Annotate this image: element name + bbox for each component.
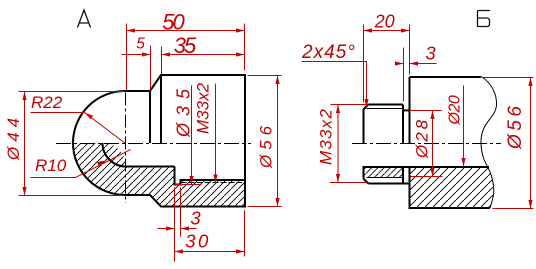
dia20 label line <box>463 86 465 167</box>
R10 arrowhead <box>97 161 106 166</box>
dim 20 line <box>364 30 410 32</box>
dia44 dim line <box>24 92 26 196</box>
5 arrow <box>142 52 151 56</box>
horizontal centerline (view A axis) <box>56 143 251 145</box>
svg-text:Ø56: Ø56 <box>505 103 526 150</box>
svg-text:R22: R22 <box>31 93 63 112</box>
30 arrows <box>175 249 184 253</box>
dia44 ext top <box>19 91 125 93</box>
dim 50/35 ext line right <box>244 24 246 71</box>
thread groove walls <box>175 167 181 185</box>
R22 shelf and leader <box>31 113 126 144</box>
dim 3A tail left <box>158 228 175 230</box>
M33x2 arrow <box>213 175 217 184</box>
svg-text:M33x2: M33x2 <box>194 82 213 134</box>
vertical centerline (sphere axis) <box>125 93 127 204</box>
dim 3B tail left <box>396 63 404 65</box>
thread end line (interrupted by bore) <box>402 105 404 184</box>
R10 shelf and leader <box>31 150 131 178</box>
svg-text:Ø56: Ø56 <box>257 121 276 169</box>
thread minor thin top <box>367 108 404 110</box>
svg-text:35: 35 <box>174 33 197 58</box>
dia56B dim line <box>530 78 532 209</box>
dim 3A tail right <box>181 228 197 230</box>
label Б <box>478 11 491 27</box>
svg-text:Ø20: Ø20 <box>447 95 464 125</box>
crease line cone/cyl44 joint <box>149 91 151 143</box>
dia44 arrows <box>22 92 26 101</box>
dim 50 ext line left <box>126 24 128 91</box>
dia56B ext bottom <box>493 208 534 210</box>
hatch flange section <box>410 167 494 208</box>
2x45 shelf and leader <box>302 62 367 106</box>
dia28 ext top <box>410 110 442 112</box>
arrowheads view B <box>336 28 533 208</box>
dia28 ext bottom <box>411 176 443 178</box>
50 arrows <box>127 28 136 32</box>
dim 5 ext line <box>150 46 152 90</box>
dim 3B tail right <box>410 63 437 65</box>
svg-text:Ø28: Ø28 <box>413 117 432 159</box>
dim 20 ext left <box>363 25 365 103</box>
dia35 arrow <box>189 176 193 185</box>
dim 20 / 3 ext right (flange face) <box>409 25 411 75</box>
svg-text:Ø35: Ø35 <box>174 82 194 138</box>
dia35 label line <box>191 86 193 185</box>
svg-text:R10: R10 <box>35 156 67 175</box>
dim 35 ext line left <box>161 47 163 75</box>
thread bottom edge <box>368 183 403 185</box>
dia56A ext top <box>248 75 282 77</box>
arrowheads view A <box>22 28 279 253</box>
svg-text:50: 50 <box>162 10 185 35</box>
dim 5 tail <box>122 54 151 56</box>
thread major line (thin dashed) <box>181 182 243 184</box>
wavy break line <box>481 77 497 208</box>
M33x2B ext bottom <box>330 182 368 184</box>
horizontal centerline view B <box>352 143 501 145</box>
dim 35 line <box>162 54 245 56</box>
R22 arrowhead <box>85 113 94 120</box>
cavity wall <box>126 166 175 168</box>
svg-text:Ø44: Ø44 <box>4 113 23 161</box>
3A arrows <box>166 226 175 230</box>
thread minor line (thick) <box>181 179 246 181</box>
svg-text:M33x2: M33x2 <box>317 108 336 165</box>
dia28 arrows <box>430 111 434 120</box>
chamfer top left <box>364 105 369 110</box>
internal cavity R10 arc <box>103 143 127 167</box>
chamfer bottom left <box>364 179 369 184</box>
svg-text:2x45°: 2x45° <box>301 42 356 63</box>
M33x2B ext top <box>331 104 367 106</box>
dia20 arrow <box>461 158 465 167</box>
2x45 arrow <box>364 99 368 108</box>
M33x2B arrows <box>336 105 340 114</box>
svg-text:30: 30 <box>185 231 211 252</box>
bore dia20 line <box>364 166 490 168</box>
outer profile view A: sphere R22 <box>73 91 125 195</box>
dia56B ext top <box>484 77 534 79</box>
neck bottom line <box>403 183 410 185</box>
dim 3A ext line right <box>180 188 182 237</box>
svg-text:20: 20 <box>374 12 395 32</box>
M33x2B dim line <box>337 105 339 183</box>
dia56B arrows <box>528 78 532 87</box>
35 arrows <box>162 52 171 56</box>
dim 30 line <box>175 251 245 253</box>
dim 3A ext line left <box>174 188 176 262</box>
crease line cone/cyl56 joint <box>160 75 162 143</box>
3B arrows <box>395 61 404 65</box>
hatch fill (section, bottom half view A) <box>73 143 245 207</box>
outline view B: thread top edge <box>368 104 403 106</box>
dim 50 line <box>127 30 245 32</box>
dia44 ext bottom <box>19 195 125 197</box>
left end face (interrupted by bore) <box>363 109 365 178</box>
hatch small cylinder wall band <box>364 167 404 178</box>
M33x2 label line <box>215 84 217 184</box>
dia56A dim line <box>277 76 279 207</box>
groove diameter ext line <box>175 184 202 186</box>
dim 3B ext left <box>403 48 405 102</box>
20 arrows <box>364 28 373 32</box>
dia56A ext bottom <box>248 206 282 208</box>
dia56A arrows <box>275 76 279 85</box>
outer profile view A: body <box>125 75 245 207</box>
dim 30 ext right <box>244 211 246 257</box>
label А <box>78 10 91 28</box>
neck top line <box>403 109 410 111</box>
flange outline <box>410 77 491 208</box>
dia28 dim line <box>432 111 434 177</box>
thread minor thin bottom <box>367 177 404 179</box>
